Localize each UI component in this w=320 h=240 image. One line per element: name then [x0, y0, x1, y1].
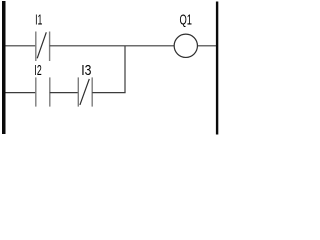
wire rung2 right segment	[92, 92, 125, 94]
contact I1 (normally closed)	[36, 32, 50, 62]
left power rail	[2, 1, 6, 134]
wire rung2 left segment	[6, 92, 36, 94]
branch vertical wire	[124, 46, 126, 93]
wire rung2 middle segment	[50, 92, 79, 94]
right power rail	[216, 2, 218, 135]
contact I3 (normally closed)	[78, 77, 92, 106]
svg-text:I1: I1	[35, 13, 42, 29]
wire rung1 middle segment	[50, 45, 174, 47]
wire rung1 left segment	[6, 45, 36, 47]
svg-text:Q1: Q1	[180, 13, 193, 29]
coil Q1	[174, 34, 197, 57]
wire coil to right rail	[198, 45, 216, 47]
svg-text:I2: I2	[34, 63, 41, 79]
svg-text:I3: I3	[81, 63, 91, 79]
contact I2 (normally open)	[36, 77, 50, 106]
